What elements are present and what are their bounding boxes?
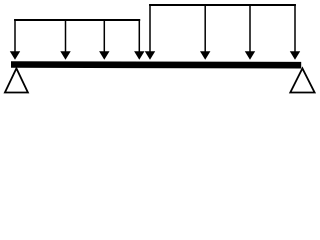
arrowhead 8 <box>290 51 300 60</box>
left support (pin) <box>5 68 28 92</box>
arrowhead 7 <box>245 51 255 60</box>
load line L1 (left distributed load header) <box>14 19 140 21</box>
arrowhead 5 <box>145 51 155 60</box>
arrowhead 4 <box>134 51 144 60</box>
wire shaft arrow 6 <box>204 4 206 53</box>
arrowhead 6 <box>200 51 210 60</box>
arrowhead 2 <box>60 51 70 60</box>
beam <box>11 61 301 68</box>
wire shaft arrow 5 <box>149 4 151 53</box>
wire shaft arrow 1 <box>14 19 16 53</box>
load line L2 (right distributed load header) <box>149 4 296 6</box>
wire shaft arrow 7 <box>249 4 251 53</box>
right support (pin) <box>290 68 314 92</box>
wire shaft arrow 3 <box>103 19 105 53</box>
wire shaft arrow 4 <box>138 19 140 53</box>
arrowhead 1 <box>10 51 20 60</box>
arrowhead 3 <box>99 51 109 60</box>
wire shaft arrow 8 <box>294 4 296 53</box>
wire shaft arrow 2 <box>65 19 67 53</box>
